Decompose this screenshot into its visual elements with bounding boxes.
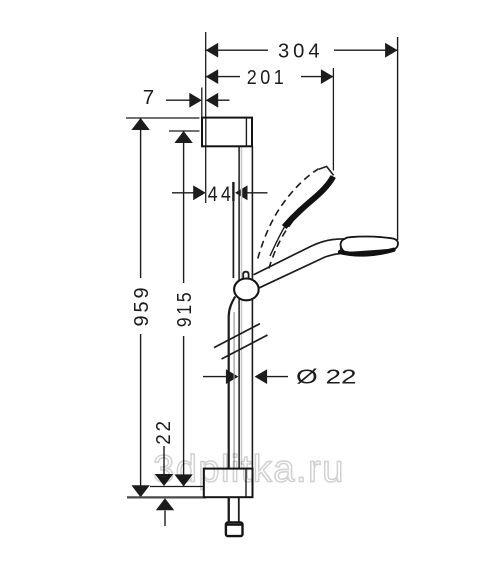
hand shower handle lower edge [259,254,340,288]
bottom wall bracket [204,469,253,498]
wire: extension line raised head (x=333.4) [332,68,334,171]
head button tick [340,244,342,253]
wire: hose axis tick at 44 [232,182,234,201]
svg-text:Ø 22: Ø 22 [296,366,357,389]
raised head band tail [270,227,285,257]
top wall bracket [202,118,252,147]
dimension 915 [169,130,200,132]
svg-text:3dplitka.ru: 3dplitka.ru [153,449,345,491]
dimension 304 line [206,49,398,51]
wire: bottom extension line lower (y=497.4) [127,496,206,498]
svg-text:201: 201 [247,66,287,89]
dashed handle raised position line 1 [258,169,319,259]
wire: bottom extension line upper (y=486.5) [150,486,204,488]
svg-text:7: 7 [143,86,154,109]
dimension 22 [163,446,165,485]
svg-text:304: 304 [278,39,324,62]
raised head dark face band [284,177,333,228]
holder knob [243,272,248,279]
hose nut cone [226,523,243,537]
hand shower handle upper edge [254,239,346,275]
holder circle [234,279,259,301]
dimension 201 line [206,76,334,78]
wire: extension line wall plane (x=205.7) [205,32,207,203]
break marks on rail [214,324,260,348]
svg-text:959: 959 [130,285,153,327]
hose below bracket [228,497,230,522]
dimension 7 [201,88,203,118]
svg-text:915: 915 [173,290,196,328]
head dark spray face band [340,250,394,255]
dimension 44 [172,192,194,194]
dimension 959 [126,117,200,119]
wire: extension line right head edge (x=397.6) [397,37,399,240]
raised head tip outline [319,166,334,175]
dashed handle raised position line 2 [269,207,304,269]
rail tube [238,146,240,468]
svg-text:44: 44 [208,183,235,206]
svg-text:22: 22 [152,418,175,445]
hand shower head body [341,236,398,252]
dimension diameter 22 [203,376,227,378]
hose [229,297,236,523]
